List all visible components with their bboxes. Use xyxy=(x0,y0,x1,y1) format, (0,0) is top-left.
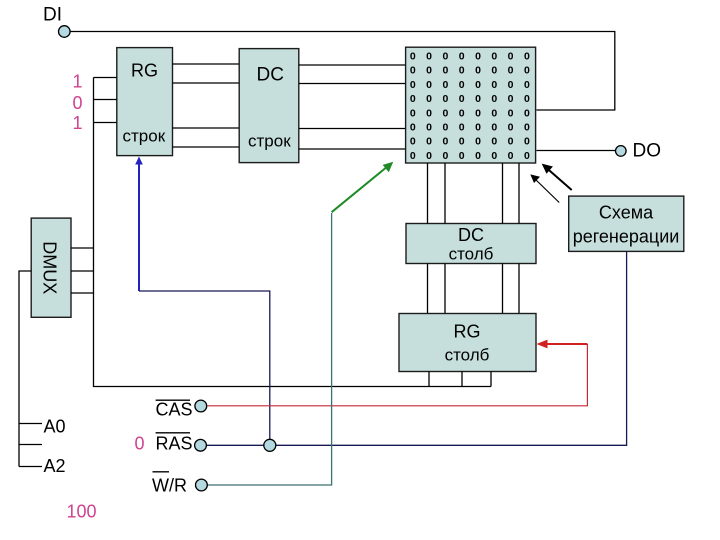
svg-text:0: 0 xyxy=(524,79,530,91)
svg-text:0: 0 xyxy=(524,107,530,119)
node CAS xyxy=(156,399,207,419)
svg-text:W/R: W/R xyxy=(152,475,187,495)
svg-text:0: 0 xyxy=(475,93,481,105)
svg-text:Схема: Схема xyxy=(599,203,654,223)
svg-text:0: 0 xyxy=(410,65,416,77)
svg-text:0: 0 xyxy=(410,51,416,63)
svg-text:DO: DO xyxy=(633,141,662,162)
node DO xyxy=(537,141,662,162)
svg-text:0: 0 xyxy=(410,136,416,148)
svg-text:0: 0 xyxy=(426,65,432,77)
register RG строк xyxy=(117,48,173,156)
memory array xyxy=(406,47,536,163)
svg-text:0: 0 xyxy=(491,65,497,77)
wire W/R control (teal) xyxy=(207,213,331,485)
svg-text:0: 0 xyxy=(508,136,514,148)
node address bits 101 xyxy=(73,72,83,134)
svg-text:0: 0 xyxy=(459,107,465,119)
svg-text:RAS: RAS xyxy=(156,434,193,454)
wire green arrow to array xyxy=(332,162,394,213)
svg-text:100: 100 xyxy=(67,501,97,521)
svg-text:0: 0 xyxy=(410,122,416,134)
wire address bus into RG строк xyxy=(94,78,492,387)
svg-text:0: 0 xyxy=(459,79,465,91)
svg-text:0: 0 xyxy=(491,93,497,105)
node A0 xyxy=(19,417,66,437)
svg-text:регенерации: регенерации xyxy=(573,227,680,247)
svg-text:1: 1 xyxy=(73,113,83,133)
wire DC строк to memory array xyxy=(299,65,406,149)
node RAS xyxy=(156,433,207,454)
svg-text:0: 0 xyxy=(491,107,497,119)
svg-text:0: 0 xyxy=(524,136,530,148)
register RG столб xyxy=(399,314,536,372)
svg-text:DI: DI xyxy=(43,5,62,26)
svg-text:0: 0 xyxy=(475,122,481,134)
svg-text:A0: A0 xyxy=(44,417,66,437)
block Схема регенерации xyxy=(569,196,684,251)
svg-text:0: 0 xyxy=(475,107,481,119)
svg-text:CAS: CAS xyxy=(156,399,193,419)
svg-text:0: 0 xyxy=(459,150,465,162)
decoder DC строк xyxy=(239,49,299,163)
svg-text:RG: RG xyxy=(131,61,158,81)
svg-text:0: 0 xyxy=(410,150,416,162)
wire DMUX outputs to address bus xyxy=(71,248,94,293)
svg-text:0: 0 xyxy=(426,93,432,105)
svg-text:0: 0 xyxy=(524,65,530,77)
wire RAS to row clock (navy) xyxy=(139,291,270,445)
svg-text:0: 0 xyxy=(459,122,465,134)
svg-text:0: 0 xyxy=(426,79,432,91)
svg-text:0: 0 xyxy=(442,122,448,134)
svg-text:0: 0 xyxy=(508,122,514,134)
svg-text:0: 0 xyxy=(524,93,530,105)
svg-text:0: 0 xyxy=(73,93,83,113)
svg-text:0: 0 xyxy=(508,65,514,77)
svg-text:0: 0 xyxy=(475,79,481,91)
svg-text:строк: строк xyxy=(123,127,166,146)
svg-text:столб: столб xyxy=(445,346,490,365)
svg-text:DMUX: DMUX xyxy=(40,241,60,294)
svg-text:0: 0 xyxy=(442,150,448,162)
svg-text:0: 0 xyxy=(475,65,481,77)
node W/R xyxy=(152,472,207,496)
svg-text:0: 0 xyxy=(508,107,514,119)
svg-text:0: 0 xyxy=(410,107,416,119)
wire regeneration arrows to array xyxy=(530,164,571,203)
svg-text:0: 0 xyxy=(410,93,416,105)
svg-text:0: 0 xyxy=(442,93,448,105)
svg-text:0: 0 xyxy=(508,79,514,91)
svg-text:0: 0 xyxy=(475,51,481,63)
svg-text:DC: DC xyxy=(257,64,284,85)
svg-text:0: 0 xyxy=(491,122,497,134)
svg-text:0: 0 xyxy=(475,150,481,162)
svg-text:RG: RG xyxy=(454,322,481,342)
svg-text:0: 0 xyxy=(426,122,432,134)
svg-text:1: 1 xyxy=(73,72,83,92)
node DI xyxy=(43,5,70,38)
svg-text:0: 0 xyxy=(442,136,448,148)
wire DC столб to RG столб xyxy=(428,264,520,314)
wire Схема регенерации to RAS line (navy) xyxy=(206,251,626,445)
svg-text:0: 0 xyxy=(524,150,530,162)
svg-text:0: 0 xyxy=(426,136,432,148)
svg-text:столб: столб xyxy=(449,245,494,264)
svg-text:A2: A2 xyxy=(44,456,66,476)
wire RG строк to DC строк xyxy=(173,64,240,147)
svg-text:0: 0 xyxy=(442,51,448,63)
wire RG столб to column bus xyxy=(429,372,491,387)
junction RAS / row clock xyxy=(264,439,276,451)
svg-text:0: 0 xyxy=(426,51,432,63)
svg-text:0: 0 xyxy=(459,65,465,77)
wire row clock (blue arrow into RG строк) xyxy=(135,157,143,292)
svg-text:0: 0 xyxy=(508,51,514,63)
svg-text:0: 0 xyxy=(459,136,465,148)
svg-text:DC: DC xyxy=(458,225,484,245)
svg-text:0: 0 xyxy=(491,79,497,91)
svg-text:0: 0 xyxy=(442,107,448,119)
decoder DC столб xyxy=(406,224,536,264)
svg-text:0: 0 xyxy=(524,51,530,63)
node A1 tick xyxy=(19,444,42,446)
svg-text:0: 0 xyxy=(459,93,465,105)
svg-text:0: 0 xyxy=(491,51,497,63)
wire DI to memory array xyxy=(70,32,615,111)
svg-text:0: 0 xyxy=(426,107,432,119)
svg-text:0: 0 xyxy=(475,136,481,148)
svg-text:0: 0 xyxy=(426,150,432,162)
wire DMUX input from address pins xyxy=(19,271,31,467)
svg-text:0: 0 xyxy=(410,79,416,91)
svg-text:строк: строк xyxy=(248,132,291,151)
svg-text:0: 0 xyxy=(442,65,448,77)
svg-text:0: 0 xyxy=(491,150,497,162)
svg-text:0: 0 xyxy=(491,136,497,148)
svg-text:0: 0 xyxy=(135,434,145,454)
svg-text:0: 0 xyxy=(508,150,514,162)
node A2 xyxy=(19,456,66,476)
svg-text:0: 0 xyxy=(442,79,448,91)
svg-text:0: 0 xyxy=(524,122,530,134)
wire memory array to DC столб xyxy=(428,163,520,224)
wire column clock: CAS to RG столб (red) xyxy=(207,340,587,406)
demultiplexer DMUX xyxy=(31,218,71,317)
svg-text:0: 0 xyxy=(459,51,465,63)
svg-text:0: 0 xyxy=(508,93,514,105)
